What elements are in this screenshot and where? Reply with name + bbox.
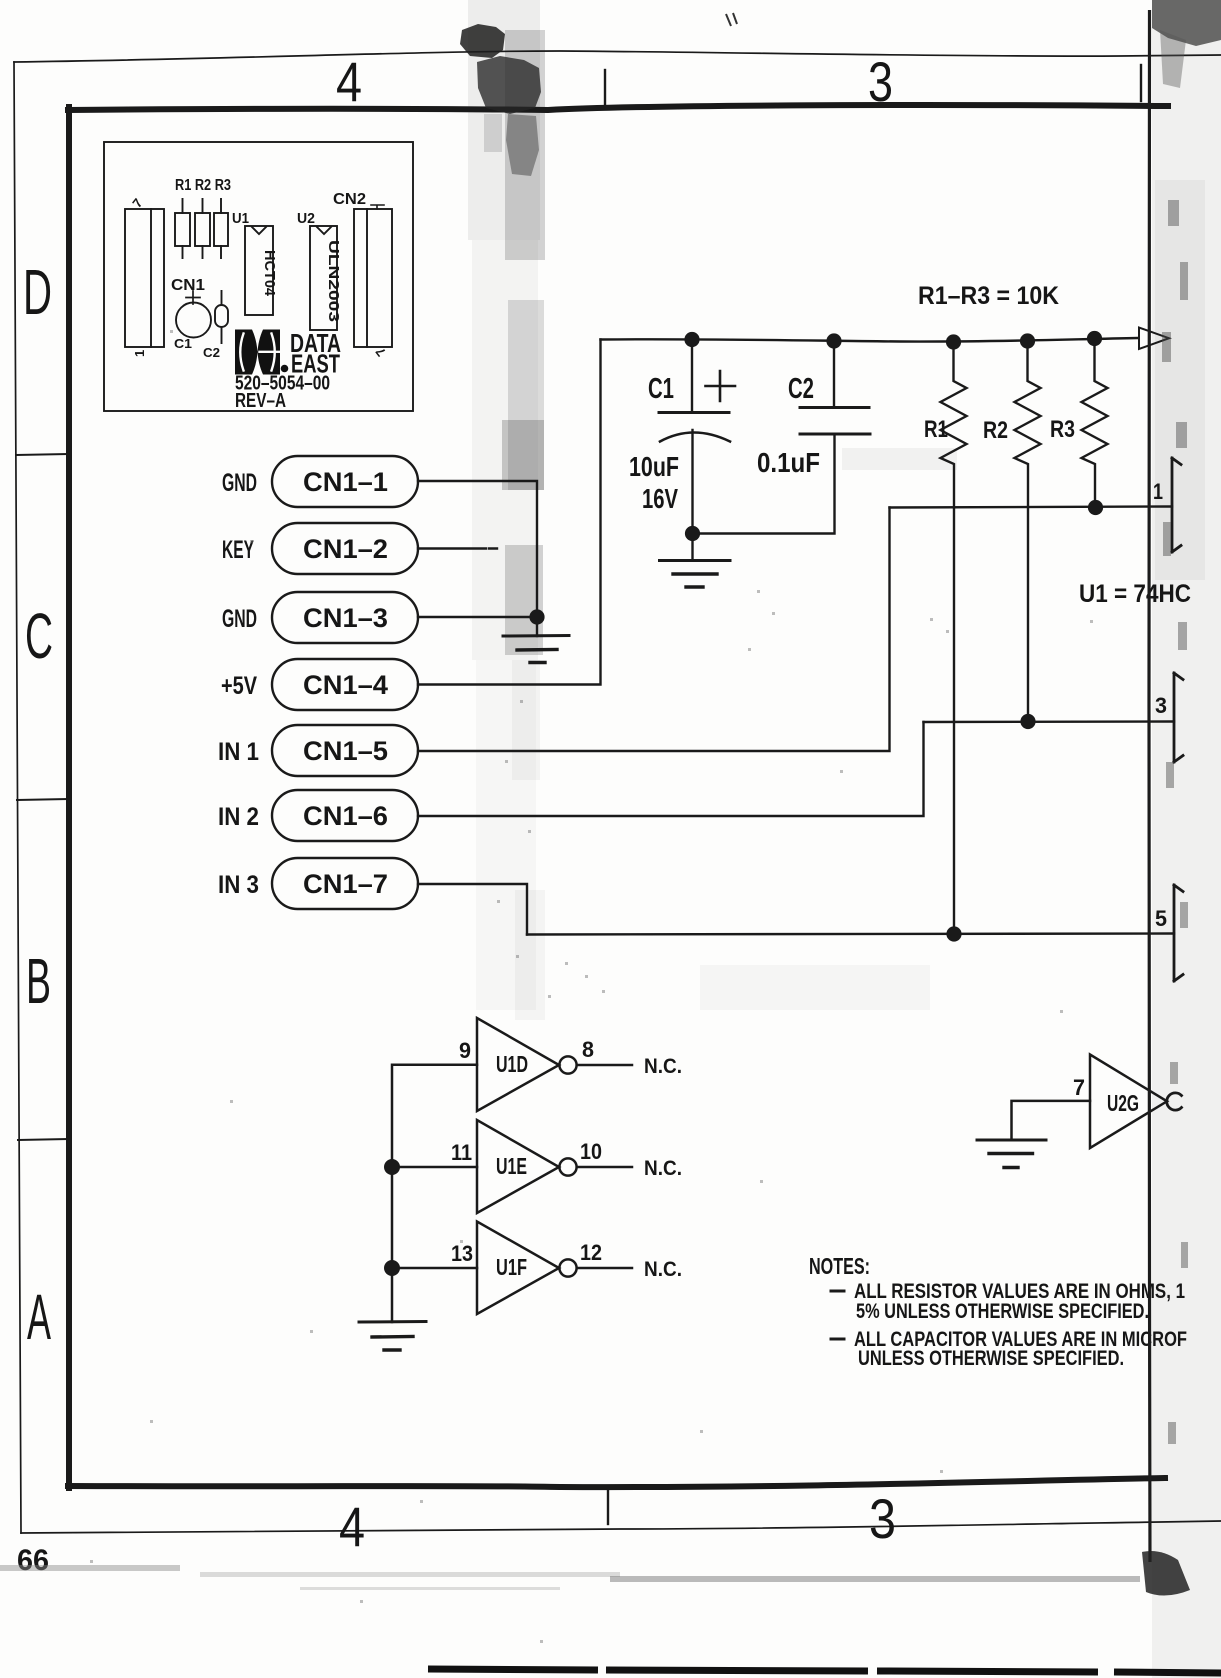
svg-text:4: 4: [339, 1495, 365, 1558]
Data East logo: [235, 330, 288, 375]
inner border left: [66, 107, 72, 1488]
svg-text:ULN2003: ULN2003: [325, 240, 342, 322]
node C2 top: [826, 333, 841, 348]
zone tick left B/A: [18, 1139, 68, 1140]
node U1E input: [384, 1159, 400, 1175]
svg-text:CN1: CN1: [171, 277, 205, 294]
inverter U1E: [477, 1120, 559, 1213]
capacitor C2: [833, 341, 835, 408]
wire CN1-3 to gnd node: [418, 616, 530, 618]
note 2 dash: [831, 1338, 844, 1341]
svg-text:NOTES:: NOTES:: [809, 1253, 870, 1279]
connector CN1 package: [125, 209, 164, 347]
zone tick left C/B: [17, 799, 68, 800]
svg-text:U1F: U1F: [496, 1254, 527, 1280]
pill CN1-3: [272, 592, 418, 643]
svg-text:9: 9: [459, 1038, 471, 1063]
svg-text:16V: 16V: [642, 483, 678, 514]
svg-text:N.C.: N.C.: [644, 1055, 682, 1078]
+5V rail arrowhead: [1139, 328, 1169, 350]
svg-text:R3: R3: [1050, 416, 1075, 443]
IC U2 package: [310, 226, 337, 330]
svg-text:U2G: U2G: [1107, 1090, 1139, 1116]
outer border top: [14, 51, 1221, 62]
resistor R3: [1082, 339, 1108, 501]
svg-text:C2: C2: [788, 373, 814, 405]
wire U1D output: [577, 1064, 632, 1067]
right band speckles: [1162, 200, 1188, 1444]
inverter U1C edge cut: [1174, 885, 1183, 981]
svg-text:U1E: U1E: [496, 1153, 527, 1179]
ground under C1: [660, 559, 731, 562]
svg-text:CN1–2: CN1–2: [303, 534, 388, 564]
svg-text:10uF: 10uF: [629, 451, 679, 482]
node C1 bottom junction: [685, 526, 700, 541]
svg-text:CN2: CN2: [333, 191, 366, 208]
svg-text:B: B: [26, 945, 51, 1017]
svg-text:N.C.: N.C.: [644, 1157, 682, 1180]
svg-text:3: 3: [1155, 693, 1167, 718]
wire CN1-5 to pin1 riser: [418, 508, 890, 752]
zone tick bottom middle: [607, 1490, 609, 1524]
svg-text:N.C.: N.C.: [644, 1258, 682, 1281]
svg-text:4: 4: [336, 50, 362, 113]
svg-text:10: 10: [580, 1139, 602, 1164]
svg-text:0.1uF: 0.1uF: [757, 447, 820, 478]
node R2 bottom pin3: [1020, 714, 1035, 729]
wire +5V rail: [601, 338, 1139, 342]
top tiny mark: [726, 13, 737, 26]
svg-text:CN1–7: CN1–7: [303, 869, 388, 899]
svg-text:HCT04: HCT04: [261, 250, 278, 297]
pill CN1-2: [272, 523, 418, 574]
resistor R2: [1015, 341, 1041, 714]
svg-text:1: 1: [132, 350, 147, 357]
ground under gates: [359, 1320, 426, 1324]
node R1 bottom pin5: [946, 926, 961, 941]
wire junction to ground: [691, 540, 693, 560]
inverter U1A edge cut: [1172, 458, 1181, 552]
box outline: [104, 142, 413, 411]
notes: [809, 1253, 1187, 1370]
wire pin1 line: [890, 507, 1173, 508]
svg-text:R1 R2 R3: R1 R2 R3: [175, 177, 231, 194]
power section: [527, 282, 1191, 981]
svg-text:CN1–1: CN1–1: [303, 467, 388, 497]
svg-text:KEY: KEY: [222, 536, 254, 564]
svg-text:R1: R1: [924, 416, 948, 443]
wire U1F input: [392, 1267, 477, 1270]
ground under U2G: [977, 1139, 1046, 1142]
pill CN1-1: [272, 456, 418, 507]
inner border bottom: [68, 1478, 1165, 1487]
svg-text:11: 11: [451, 1140, 472, 1165]
pill CN1-5: [272, 725, 418, 776]
wire CN1-7 to pin5 route: [418, 884, 527, 935]
svg-text:C1: C1: [648, 373, 674, 405]
svg-text:3: 3: [868, 50, 893, 113]
U2G bubble open: [1167, 1093, 1182, 1110]
svg-text:5: 5: [1155, 906, 1167, 931]
bottom scan streaks: [0, 1565, 180, 1571]
wire U2G input: [1012, 1101, 1091, 1140]
outer border bottom: [21, 1521, 1221, 1533]
wire U1E input: [392, 1166, 477, 1169]
svg-text:GND: GND: [222, 469, 257, 497]
wire C2 bottom to junction: [700, 434, 835, 534]
connector pills: [218, 340, 924, 935]
node R1 top: [946, 334, 961, 349]
wire CN1-4 to +5V rail riser: [418, 340, 601, 685]
svg-text:U1: U1: [232, 210, 249, 227]
resistor package R1: [175, 213, 190, 246]
svg-text:5% UNLESS OTHERWISE SPECIFIED.: 5% UNLESS OTHERWISE SPECIFIED.: [856, 1300, 1149, 1323]
node C1 top: [684, 332, 699, 347]
svg-text:GND: GND: [222, 605, 257, 633]
resistor R1: [941, 342, 967, 926]
connector CN2 package: [354, 209, 392, 347]
svg-text:A: A: [27, 1281, 51, 1353]
zone tick left D/C: [16, 454, 68, 455]
node R3 top: [1087, 331, 1102, 346]
bottom page edge line: [428, 1669, 1221, 1673]
zone tick top right: [1140, 65, 1142, 101]
svg-text:D: D: [23, 256, 52, 328]
component layout box: [104, 142, 413, 412]
wire CN1-2 key stub: [418, 547, 497, 549]
svg-text:C: C: [25, 600, 53, 672]
scattered speckles: [90, 330, 1093, 1643]
wire gnd stem: [536, 624, 538, 636]
svg-text:IN 2: IN 2: [218, 803, 259, 831]
CN2 pin1 mark: [371, 205, 384, 209]
inverter U2G: [1090, 1055, 1167, 1149]
wire CN1-1 to gnd node: [418, 481, 537, 610]
svg-text:R2: R2: [983, 417, 1008, 444]
svg-text:CN1–6: CN1–6: [303, 801, 388, 831]
svg-text:C1: C1: [174, 336, 192, 351]
pill CN1-6: [272, 790, 418, 841]
svg-text:U2: U2: [297, 210, 315, 227]
crease vertical line: [1149, 10, 1150, 1562]
svg-text:8: 8: [582, 1037, 594, 1062]
inverter U1F: [477, 1222, 559, 1315]
resistor package R2: [195, 213, 210, 246]
resistor package R3: [214, 213, 228, 246]
ground under CN1-3: [503, 634, 569, 638]
NOISE-UNDER: [468, 0, 1221, 1678]
svg-text:CN1–5: CN1–5: [303, 736, 388, 766]
pill CN1-4: [272, 659, 418, 710]
svg-text:3: 3: [869, 1487, 896, 1550]
svg-text:U1 = 74HC: U1 = 74HC: [1079, 580, 1191, 608]
wire pin3 line: [924, 720, 1175, 723]
svg-text:U1D: U1D: [496, 1051, 528, 1077]
svg-text:UNLESS OTHERWISE SPECIFIED.: UNLESS OTHERWISE SPECIFIED.: [858, 1347, 1124, 1370]
node R2 top: [1020, 333, 1035, 348]
wire U1E output: [577, 1166, 632, 1169]
svg-text:R1–R3 = 10K: R1–R3 = 10K: [918, 282, 1059, 310]
C1 plus mark: [706, 371, 736, 401]
svg-text:CN1–3: CN1–3: [303, 603, 388, 633]
inverter U1D: [477, 1018, 559, 1111]
capacitor C1 package: [176, 303, 211, 338]
node U1F input: [384, 1260, 400, 1276]
inverter U1B edge cut: [1174, 673, 1183, 762]
svg-text:IN 1: IN 1: [218, 738, 259, 766]
svg-text:C2: C2: [203, 345, 220, 360]
svg-text:12: 12: [580, 1240, 602, 1265]
note 1 dash: [831, 1290, 844, 1293]
wire CN1-6 to pin3 riser: [418, 722, 924, 816]
capacitor C1: [691, 340, 693, 413]
outer border left: [14, 62, 21, 1533]
node R3 bottom pin1: [1088, 500, 1103, 515]
svg-text:7: 7: [1073, 1075, 1085, 1100]
svg-text:13: 13: [451, 1241, 473, 1266]
wire U1F output: [577, 1267, 632, 1270]
bottom crease blob: [1142, 1551, 1190, 1596]
top-right corner darkness: [1152, 0, 1221, 46]
pill CN1-7: [272, 858, 418, 909]
IC U1 package: [245, 226, 273, 315]
svg-text:IN 3: IN 3: [218, 871, 259, 899]
wire pin5 line: [527, 934, 1174, 935]
svg-text:1: 1: [1153, 479, 1163, 504]
svg-text:66: 66: [17, 1544, 49, 1577]
zone tick top middle: [604, 70, 606, 105]
top smudge blobs: [460, 24, 505, 58]
capacitor C2 package: [215, 305, 228, 327]
inner border top: [68, 105, 1168, 110]
gates: [359, 1018, 1182, 1350]
svg-text:+5V: +5V: [221, 672, 257, 700]
wire U1D input: [392, 1065, 477, 1322]
svg-text:CN1–4: CN1–4: [303, 670, 388, 700]
svg-text:REV–A: REV–A: [235, 390, 286, 412]
node gnd junction: [529, 609, 544, 624]
